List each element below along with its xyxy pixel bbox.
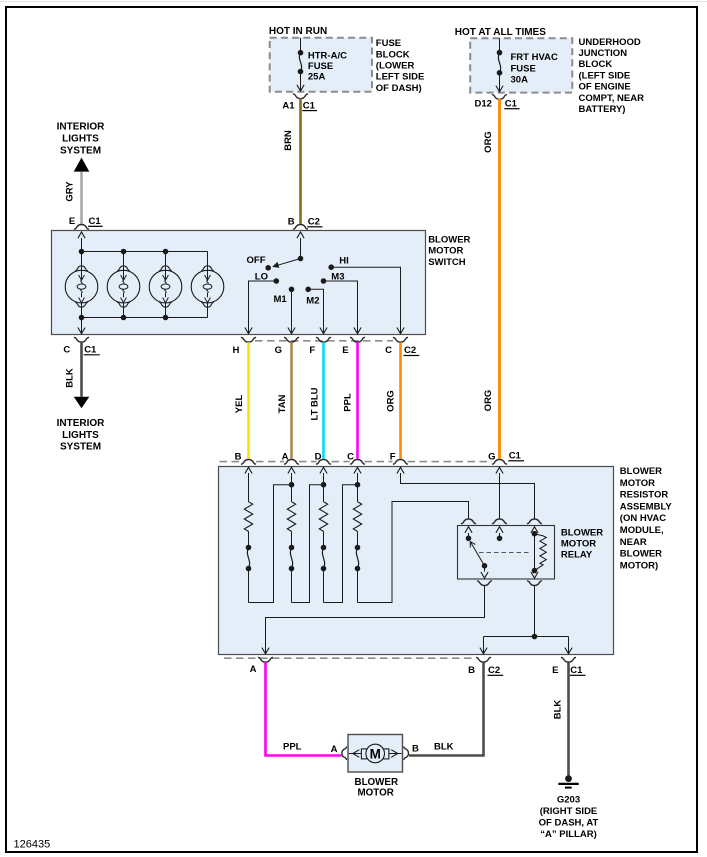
svg-text:C: C [347, 451, 354, 462]
svg-text:PPL: PPL [283, 742, 302, 753]
svg-text:PPL: PPL [343, 393, 354, 412]
svg-text:(RIGHT SIDE: (RIGHT SIDE [540, 806, 598, 817]
svg-text:BLOWER: BLOWER [561, 528, 603, 539]
svg-text:HOT IN RUN: HOT IN RUN [269, 26, 327, 37]
svg-text:BLK: BLK [552, 700, 563, 720]
svg-text:BLOWER: BLOWER [620, 466, 662, 477]
svg-text:F: F [390, 451, 396, 462]
svg-text:FUSE: FUSE [511, 64, 536, 75]
svg-text:OF ENGINE: OF ENGINE [579, 82, 631, 93]
svg-text:(LEFT SIDE: (LEFT SIDE [579, 70, 631, 81]
svg-text:ORG: ORG [483, 390, 494, 412]
svg-text:OF DASH, AT: OF DASH, AT [539, 818, 599, 829]
svg-text:INTERIOR: INTERIOR [57, 122, 106, 133]
svg-text:30A: 30A [511, 75, 529, 86]
svg-text:M1: M1 [274, 294, 288, 305]
svg-text:C1: C1 [505, 98, 518, 109]
svg-text:BLOCK: BLOCK [579, 59, 613, 70]
svg-text:OF DASH): OF DASH) [376, 83, 422, 94]
svg-text:M2: M2 [306, 295, 319, 306]
svg-text:126435: 126435 [14, 839, 51, 851]
svg-text:F: F [309, 345, 315, 356]
svg-text:JUNCTION: JUNCTION [579, 48, 628, 59]
svg-text:C1: C1 [303, 100, 316, 111]
svg-text:SYSTEM: SYSTEM [60, 145, 101, 156]
svg-text:MOTOR: MOTOR [620, 478, 655, 489]
svg-text:E: E [342, 345, 348, 356]
svg-text:YEL: YEL [234, 395, 245, 414]
svg-text:BLOWER: BLOWER [620, 549, 662, 560]
svg-text:G: G [488, 451, 495, 462]
svg-text:UNDERHOOD: UNDERHOOD [579, 37, 641, 48]
svg-text:“A” PILLAR): “A” PILLAR) [540, 829, 596, 840]
svg-text:A: A [282, 451, 289, 462]
svg-text:HI: HI [339, 255, 349, 266]
svg-text:SWITCH: SWITCH [428, 257, 466, 268]
svg-text:NEAR: NEAR [620, 537, 647, 548]
svg-text:C1: C1 [509, 451, 522, 462]
svg-text:C: C [385, 345, 392, 356]
svg-text:C2: C2 [404, 345, 416, 356]
svg-text:A1: A1 [282, 100, 295, 111]
svg-text:BLOWER: BLOWER [428, 234, 470, 245]
svg-text:INTERIOR: INTERIOR [57, 418, 106, 429]
svg-text:25A: 25A [308, 71, 326, 82]
svg-text:ORG: ORG [483, 131, 494, 153]
svg-text:RELAY: RELAY [561, 549, 593, 560]
svg-text:D12: D12 [475, 98, 492, 109]
svg-text:MOTOR: MOTOR [358, 787, 394, 798]
svg-text:A: A [331, 744, 338, 755]
svg-text:RESISTOR: RESISTOR [620, 490, 669, 501]
svg-text:BRN: BRN [283, 130, 294, 151]
svg-text:D: D [315, 451, 322, 462]
svg-text:B: B [468, 665, 475, 676]
svg-text:FRT HVAC: FRT HVAC [511, 52, 558, 63]
svg-text:G203: G203 [557, 795, 580, 806]
svg-text:ASSEMBLY: ASSEMBLY [620, 501, 673, 512]
svg-text:C: C [63, 345, 70, 356]
svg-text:MOTOR): MOTOR) [620, 560, 658, 571]
svg-text:BLK: BLK [434, 742, 454, 753]
svg-text:E: E [69, 216, 75, 227]
svg-text:HOT AT ALL TIMES: HOT AT ALL TIMES [455, 27, 546, 38]
svg-text:LIGHTS: LIGHTS [62, 134, 99, 145]
svg-text:BATTERY): BATTERY) [579, 104, 626, 115]
svg-text:MODULE,: MODULE, [620, 525, 664, 536]
svg-text:BLOWER: BLOWER [355, 777, 399, 788]
svg-text:M: M [370, 747, 381, 762]
svg-text:ORG: ORG [386, 390, 397, 412]
svg-text:LT BLU: LT BLU [309, 387, 320, 420]
svg-text:LIGHTS: LIGHTS [62, 430, 99, 441]
svg-text:C1: C1 [570, 665, 583, 676]
svg-text:G: G [275, 345, 282, 356]
svg-text:E: E [552, 665, 558, 676]
svg-text:OFF: OFF [247, 255, 266, 266]
svg-text:BLOCK: BLOCK [376, 49, 410, 60]
svg-text:C1: C1 [84, 345, 97, 356]
svg-text:TAN: TAN [277, 394, 288, 413]
svg-text:MOTOR: MOTOR [428, 246, 463, 257]
svg-text:SYSTEM: SYSTEM [60, 442, 101, 453]
svg-text:COMPT, NEAR: COMPT, NEAR [579, 93, 645, 104]
svg-text:C2: C2 [308, 217, 320, 228]
svg-text:FUSE: FUSE [308, 61, 333, 72]
svg-text:H: H [233, 345, 240, 356]
svg-text:BLK: BLK [65, 368, 76, 388]
svg-text:B: B [288, 217, 295, 228]
svg-text:(ON HVAC: (ON HVAC [620, 513, 666, 524]
svg-text:A: A [250, 664, 257, 675]
svg-text:HTR-A/C: HTR-A/C [308, 50, 347, 61]
svg-text:MOTOR: MOTOR [561, 539, 596, 550]
svg-text:(LOWER: (LOWER [376, 61, 415, 72]
svg-text:GRY: GRY [65, 181, 76, 202]
svg-text:B: B [235, 451, 242, 462]
svg-text:C1: C1 [89, 216, 102, 227]
svg-text:LEFT SIDE: LEFT SIDE [376, 72, 425, 83]
svg-text:FUSE: FUSE [376, 38, 401, 49]
svg-text:B: B [412, 744, 419, 755]
svg-text:C2: C2 [488, 665, 500, 676]
